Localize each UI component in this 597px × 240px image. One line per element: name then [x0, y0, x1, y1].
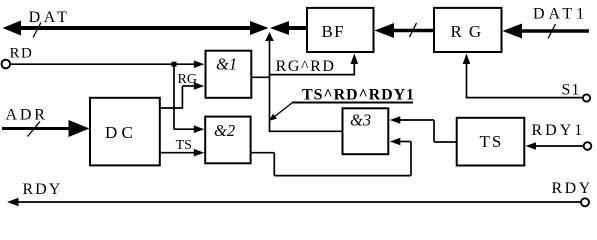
wire DAT1 thick line into RG: [520, 29, 589, 33]
svg-text:RD: RD: [10, 45, 34, 61]
block BF: [307, 8, 374, 52]
label TS small: [176, 138, 192, 153]
label RD: [10, 45, 34, 61]
BF output left arrowhead: [270, 21, 289, 35]
AND gate &2: [205, 117, 250, 164]
DAT1 slash: [548, 24, 556, 39]
label RDY left: [23, 181, 63, 198]
block RG: [434, 8, 502, 52]
bus DAT right arrowhead: [250, 21, 269, 35]
svg-text:RDY: RDY: [23, 181, 63, 198]
svg-text:&3: &3: [350, 110, 371, 129]
wire RDY bottom line: [9, 201, 581, 203]
svg-text:DAT1: DAT1: [533, 6, 588, 23]
AND gate &1: [206, 51, 252, 98]
svg-text:RG: RG: [178, 72, 197, 87]
arrowhead into &2 upper input: [194, 125, 205, 133]
svg-text:RG^RD: RG^RD: [276, 58, 336, 75]
ADR slash: [28, 122, 41, 137]
block DC: [90, 98, 160, 166]
wire vertical TS^RD^RDY1 riser: [269, 40, 271, 131]
bus DAT horizontal thick line: [12, 26, 252, 30]
wire RD branch down to &2: [174, 64, 195, 129]
AND gate &3: [343, 108, 389, 154]
arrowhead into RG bottom: [463, 54, 471, 65]
svg-text:BF: BF: [322, 22, 345, 41]
node bus junction up arrow: [265, 32, 274, 41]
label ADR: [6, 107, 48, 124]
wire RDY1 into TS: [534, 145, 584, 147]
arrowhead into &2 lower input: [194, 149, 205, 157]
bus DAT slash: [33, 23, 41, 38]
DAT1 arrowhead: [503, 24, 523, 39]
label RG^RD: [276, 58, 336, 75]
RG to BF arrowhead: [375, 23, 395, 38]
RDY left arrowhead: [7, 198, 19, 206]
wire RD horizontal: [11, 63, 196, 65]
bus ADR thick line: [2, 127, 72, 130]
arrowhead into BF bottom: [351, 54, 359, 65]
svg-text:S1: S1: [562, 82, 581, 99]
wire RG^RD to BF bottom: [269, 60, 355, 75]
svg-text:&2: &2: [214, 121, 235, 140]
wire BF output thick line to bus junction: [287, 26, 307, 30]
terminal S1 circle: [583, 94, 590, 101]
arrowhead into &1 upper input: [194, 60, 205, 68]
wire &1 output: [251, 76, 270, 78]
arrowhead into &1 lower input: [194, 82, 205, 90]
wire S1 to RG bottom: [467, 59, 584, 98]
svg-text:RDY: RDY: [552, 180, 593, 197]
RG to BF slash: [410, 23, 417, 37]
terminal RDY circle: [581, 198, 589, 206]
wire TS^RD^RDY1 horizontal to gate &3: [269, 130, 344, 132]
svg-text:&1: &1: [216, 55, 237, 74]
svg-text:TS^RD^RDY1: TS^RD^RDY1: [302, 87, 415, 104]
svg-text:TS: TS: [176, 138, 192, 153]
label S1: [562, 82, 581, 99]
wire DC TS output to &2 lower input: [159, 152, 195, 154]
arrowhead into TS right: [526, 142, 537, 150]
wire TS output to &3 upper input: [400, 120, 457, 142]
wire DC RG output to &1 lower input: [159, 86, 195, 109]
wire &2 output path to &3 lower input: [250, 142, 411, 176]
ADR arrowhead into DC: [69, 120, 90, 137]
label RDY right: [552, 180, 593, 197]
terminal RDY1 circle: [584, 142, 592, 150]
label DAT1: [533, 6, 588, 23]
arrowhead into &3 upper input: [390, 116, 401, 124]
svg-text:ADR: ADR: [6, 107, 48, 124]
label DAT: [29, 9, 71, 26]
junction dot on RD wire: [172, 62, 177, 67]
wire RG to BF thick line: [392, 29, 434, 33]
label underline: [292, 102, 413, 104]
arrowhead into &3 lower input: [390, 138, 401, 146]
svg-text:DAT: DAT: [29, 9, 71, 26]
svg-text:R G: R G: [451, 22, 483, 41]
leader line with arrow to riser: [269, 103, 293, 122]
svg-text:D C: D C: [105, 123, 133, 142]
label TS^RD^RDY1: [302, 87, 415, 104]
bus DAT left arrowhead: [3, 21, 22, 36]
svg-text:RDY1: RDY1: [532, 122, 586, 139]
label RDY1: [532, 122, 586, 139]
block TS: [457, 118, 525, 166]
terminal RD circle: [2, 60, 11, 69]
svg-text:TS: TS: [480, 132, 504, 151]
label RG small: [178, 72, 197, 87]
